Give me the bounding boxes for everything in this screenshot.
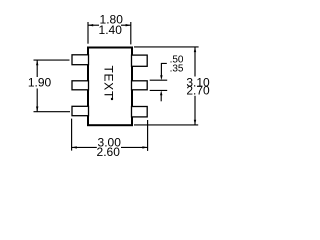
dimension .50/.35 extension line top xyxy=(150,79,168,81)
dimension 3.00/2.60 line left segment xyxy=(72,146,97,148)
dimension 1.80/1.40 extension line left xyxy=(87,22,89,44)
pin1 marker dot xyxy=(111,98,113,100)
dimension 3.00/2.60 extension line right xyxy=(147,120,149,151)
dimension 1.90 line lower segment xyxy=(36,89,38,112)
dimension 3.10/2.70 down arrowhead xyxy=(194,120,196,125)
dimension 1.80/1.40 line right segment xyxy=(121,24,131,26)
dimension 1.90 down arrowhead xyxy=(36,107,38,112)
dimension 3.00/2.60 line right segment xyxy=(121,146,148,148)
dimension 3.00/2.60 extension line left xyxy=(71,119,73,151)
svg-text:1.40: 1.40 xyxy=(99,23,123,37)
dimension 3.00/2.60 left arrowhead xyxy=(72,146,77,148)
dimension 3.10/2.70 line lower segment xyxy=(194,96,196,125)
pin 6 (right top) xyxy=(132,55,148,66)
dimension 3.10/2.70 line upper segment xyxy=(194,47,196,77)
dimension 3.10/2.70 extension line bottom xyxy=(134,124,198,126)
pin 5 (right middle) xyxy=(132,81,148,90)
dimension 1.90 extension line top xyxy=(34,59,70,61)
svg-text:2.60: 2.60 xyxy=(97,145,121,159)
pin 4 (right bottom) xyxy=(132,107,148,117)
dimension 3.10/2.70 up arrowhead xyxy=(194,47,196,52)
dimension 1.90 extension line bottom xyxy=(34,111,71,113)
svg-text:TEXT: TEXT xyxy=(102,66,116,99)
dimension 1.80/1.40 line left segment xyxy=(88,24,99,26)
dimension .50/.35 lower tail xyxy=(160,95,162,101)
dimension 1.80/1.40 right arrowhead xyxy=(126,24,131,26)
svg-text:.35: .35 xyxy=(170,64,184,75)
dimension .50/.35 leader xyxy=(161,63,166,75)
dimension .50/.35 down arrowhead xyxy=(160,75,162,80)
dimension 1.90 up arrowhead xyxy=(36,60,38,65)
dimension 1.80/1.40 left arrowhead xyxy=(88,24,93,26)
dimension 3.00/2.60 right arrowhead xyxy=(142,146,147,148)
svg-text:2.70: 2.70 xyxy=(186,84,210,98)
pin 3 (left bottom) xyxy=(72,106,89,115)
package body U1 xyxy=(88,48,132,126)
dimension 1.90 line upper segment xyxy=(36,60,38,77)
pin 1 (left top) xyxy=(72,55,89,65)
svg-text:1.90: 1.90 xyxy=(28,75,52,89)
dimension 1.80/1.40 extension line right xyxy=(130,22,132,44)
dimension .50/.35 extension line bottom xyxy=(150,89,168,91)
dimension 3.10/2.70 extension line top xyxy=(134,46,199,48)
dimension .50/.35 up arrowhead xyxy=(160,90,162,95)
pin 2 (left middle) xyxy=(72,81,89,90)
